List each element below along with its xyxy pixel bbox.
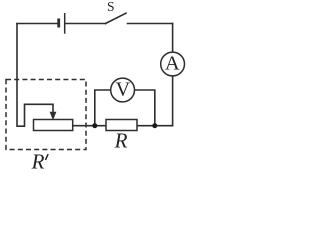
svg-text:A: A <box>165 52 180 74</box>
svg-text:R: R <box>114 128 128 152</box>
svg-text:S: S <box>107 0 115 14</box>
svg-text:V: V <box>116 79 131 101</box>
svg-text:R: R <box>31 150 45 174</box>
